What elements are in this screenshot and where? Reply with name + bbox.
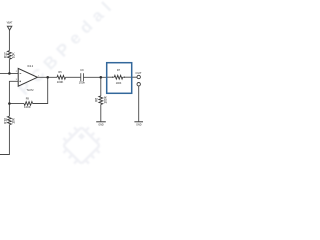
svg-text:R5: R5 [58, 71, 62, 74]
node output [46, 76, 49, 79]
svg-text:10K: 10K [12, 52, 16, 59]
svg-text:R10: R10 [3, 118, 7, 124]
svg-text:GND: GND [136, 123, 142, 126]
svg-text:PCBPedal: PCBPedal [14, 0, 119, 99]
pin ticks R7 [113, 76, 125, 78]
svg-text:100K: 100K [104, 95, 108, 103]
resistor R7 [114, 75, 123, 79]
wire [37, 76, 57, 78]
resistor R12 [7, 51, 11, 60]
resistor R6 [99, 96, 103, 105]
svg-text:TL072: TL072 [26, 89, 34, 92]
capacitor C9 [80, 73, 82, 81]
op-amp IC2.2 [18, 68, 37, 86]
node cap out [100, 76, 103, 79]
highlight box R7 [107, 63, 132, 94]
svg-text:OUT: OUT [136, 71, 142, 75]
wire [123, 76, 137, 78]
svg-text:R7: R7 [117, 69, 121, 72]
svg-text:2: 2 [16, 71, 17, 73]
svg-text:R12: R12 [3, 52, 7, 58]
svg-text:IC2.2: IC2.2 [27, 65, 34, 68]
svg-text:VBAT: VBAT [7, 22, 13, 25]
node feedback [8, 102, 11, 105]
watermark chip logo [56, 120, 107, 171]
node at divider top [8, 72, 11, 75]
wire [138, 86, 140, 122]
svg-text:10K: 10K [12, 117, 16, 124]
wire [100, 77, 102, 96]
wire [8, 59, 10, 73]
wire [8, 104, 10, 117]
wire [0, 72, 18, 74]
svg-text:100K: 100K [116, 82, 122, 85]
wire [9, 81, 18, 103]
svg-text:1: 1 [38, 76, 39, 78]
svg-text:100n: 100n [79, 81, 86, 85]
svg-text:100K: 100K [57, 80, 64, 84]
resistor R9 [24, 102, 33, 106]
junction dots [8, 72, 102, 105]
ground [134, 121, 143, 123]
svg-text:100K: 100K [24, 105, 31, 109]
svg-text:R9: R9 [26, 98, 30, 101]
svg-text:GND: GND [98, 123, 104, 126]
wire [84, 76, 107, 78]
labels [3, 22, 141, 127]
wire [0, 125, 9, 155]
wire [100, 105, 102, 122]
wire [107, 76, 114, 78]
pin OUT [137, 75, 140, 78]
watermark text [14, 0, 119, 99]
svg-text:3: 3 [16, 79, 17, 81]
resistor R10 [7, 116, 11, 125]
wire [8, 30, 10, 51]
svg-text:C9: C9 [80, 69, 84, 72]
wire [9, 103, 24, 105]
pin [137, 83, 140, 86]
wire [66, 76, 81, 78]
resistor R5 [57, 75, 66, 79]
wire [33, 77, 48, 103]
ground [96, 121, 106, 123]
svg-text:R6: R6 [94, 98, 98, 102]
power symbol VBAT [7, 26, 11, 30]
